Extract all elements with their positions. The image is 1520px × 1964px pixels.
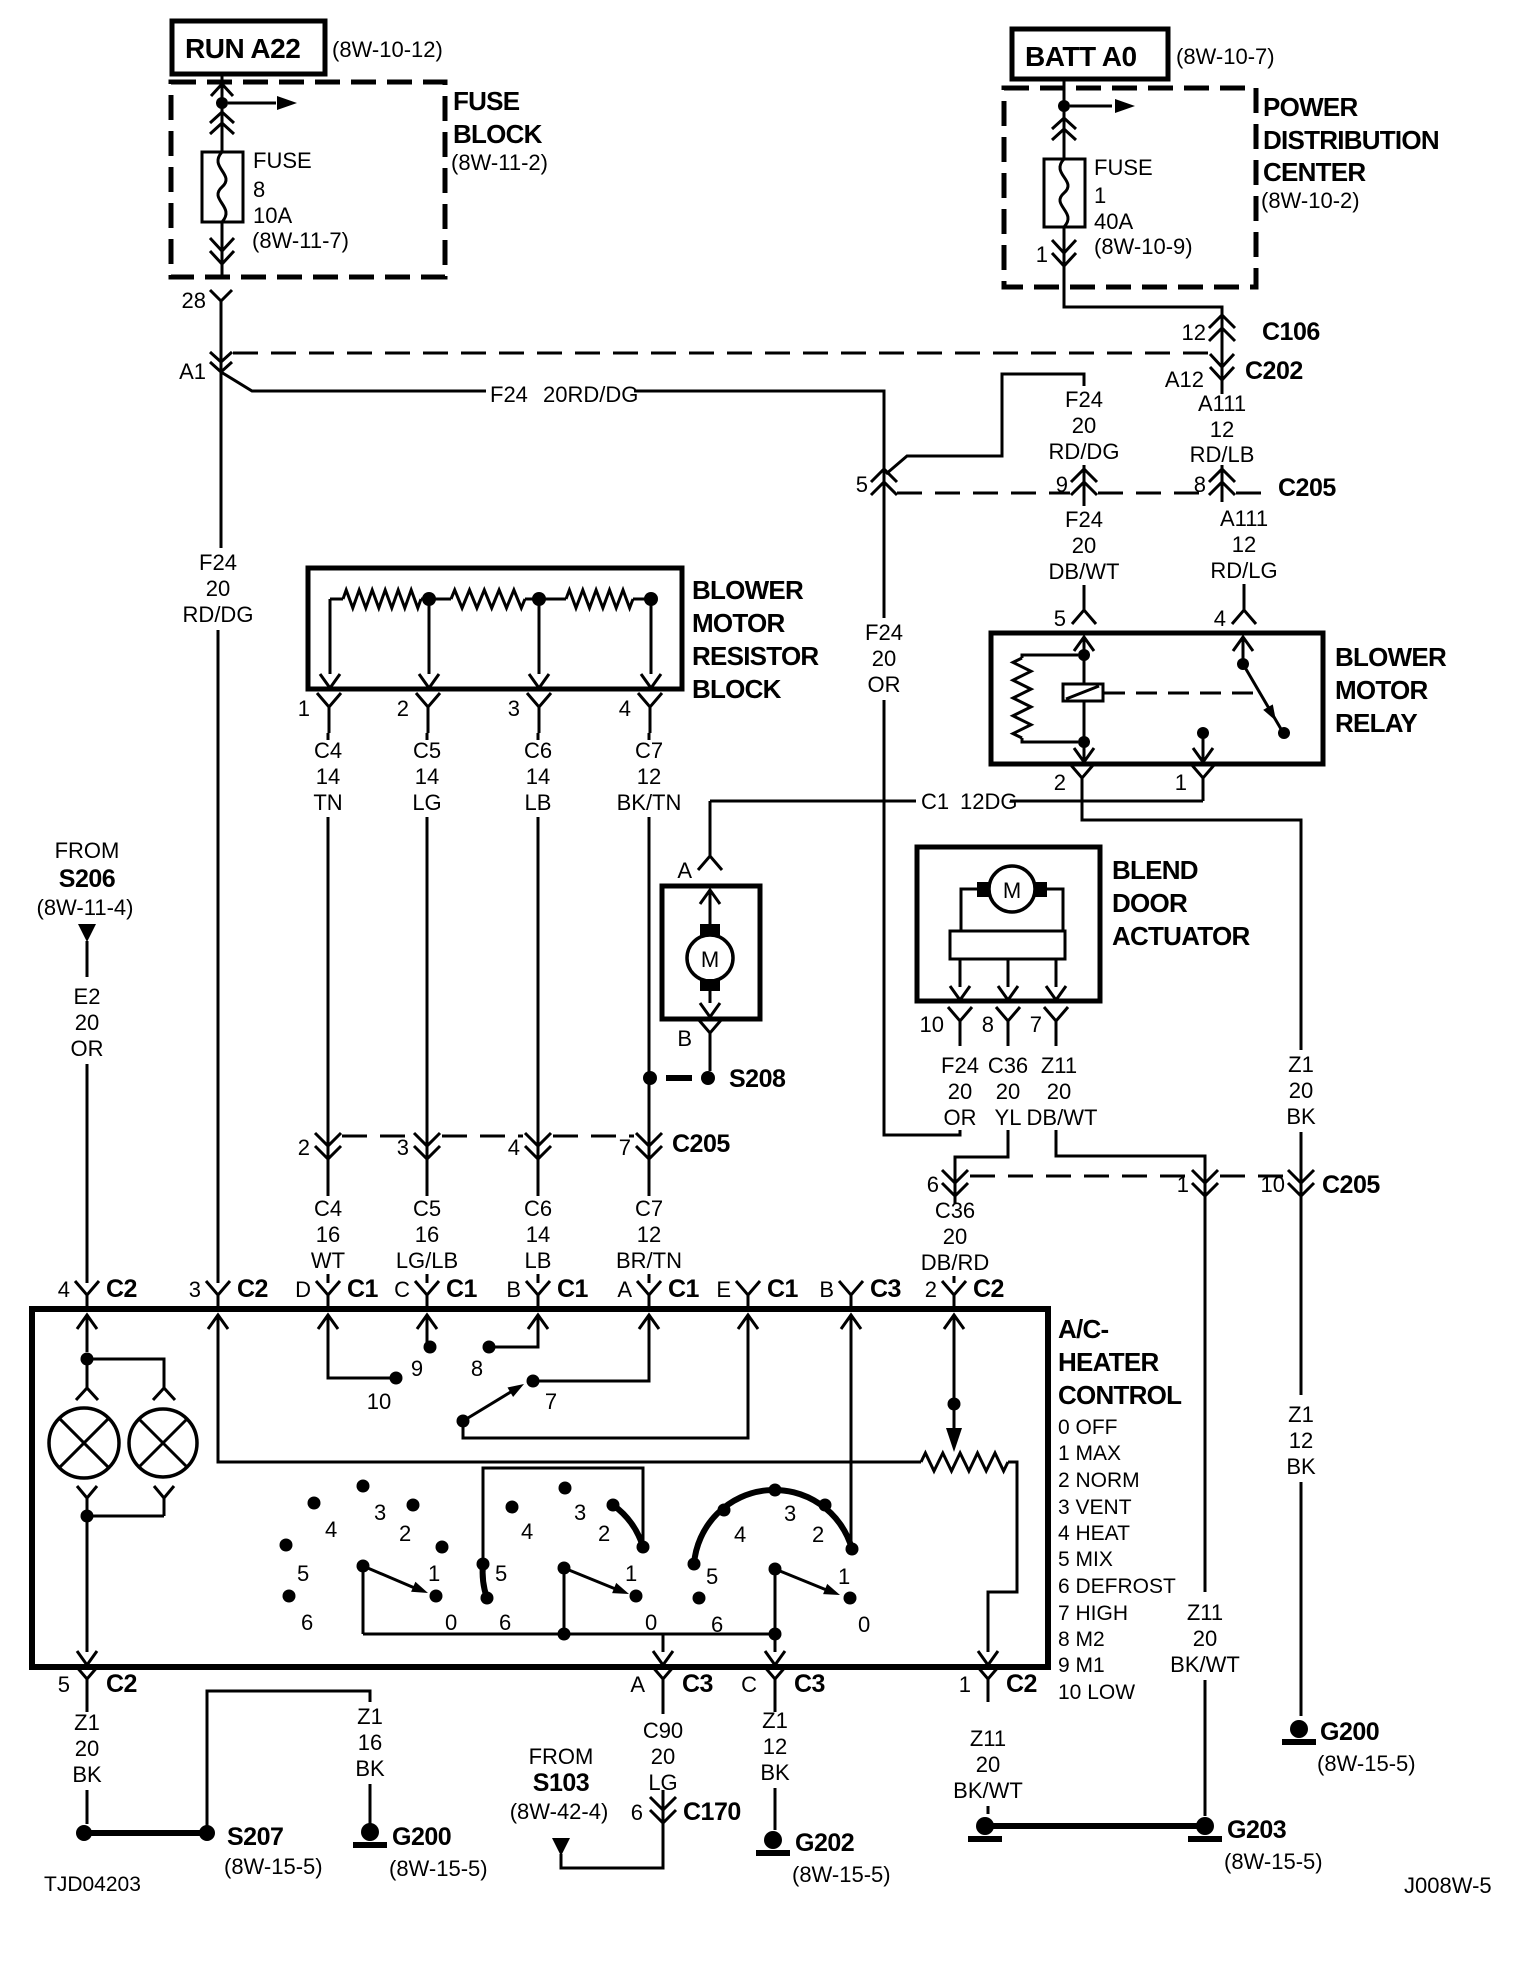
svg-text:0: 0 <box>858 1612 870 1637</box>
svg-text:C7: C7 <box>635 738 663 763</box>
svg-text:(8W-15-5): (8W-15-5) <box>389 1856 488 1881</box>
wire pot to 1 C2 <box>988 1462 1017 1652</box>
switch C contacts <box>688 1558 701 1571</box>
resistor element 2 <box>434 598 451 601</box>
contact 10 dot <box>390 1372 403 1385</box>
svg-text:C1: C1 <box>347 1275 379 1303</box>
svg-text:10A: 10A <box>253 203 292 228</box>
PDC bus dot with arrow <box>1058 100 1070 112</box>
svg-text:RUN A22: RUN A22 <box>185 33 300 64</box>
connector resistor pin 1 <box>317 693 341 733</box>
svg-text:0: 0 <box>645 1610 657 1635</box>
blower motor resistor block box <box>308 568 682 689</box>
svg-text:2: 2 <box>298 1135 310 1160</box>
wire contact 7 to A C1 <box>539 1315 649 1381</box>
connector control C C1 <box>415 1281 439 1309</box>
svg-text:RELAY: RELAY <box>1335 708 1417 738</box>
wire C6 14 LB resistor to C205 pin 4 <box>537 733 540 740</box>
svg-text:LB: LB <box>525 790 552 815</box>
svg-text:B: B <box>506 1277 521 1302</box>
svg-text:OR: OR <box>868 672 901 697</box>
svg-text:28: 28 <box>182 288 206 313</box>
svg-text:J008W-5: J008W-5 <box>1404 1873 1492 1898</box>
switch B bridge arc 5-6 <box>483 1564 487 1598</box>
svg-text:C6: C6 <box>524 738 552 763</box>
svg-text:0: 0 <box>445 1610 457 1635</box>
control entry arrow D C1 <box>318 1315 338 1329</box>
svg-text:F24: F24 <box>490 382 528 407</box>
svg-text:DOOR: DOOR <box>1112 888 1188 918</box>
switch B contact link 5 to 1 <box>483 1468 643 1558</box>
svg-text:A: A <box>630 1672 645 1697</box>
relay pin 2 exit arrow <box>1083 742 1086 763</box>
svg-text:20: 20 <box>1289 1078 1313 1103</box>
svg-text:M: M <box>701 947 719 972</box>
svg-text:16: 16 <box>358 1730 382 1755</box>
svg-text:14: 14 <box>526 764 550 789</box>
svg-text:1: 1 <box>1094 183 1106 208</box>
svg-text:3: 3 <box>574 1500 586 1525</box>
wire C170 to S103 <box>561 1823 663 1868</box>
connector C205 pin 10 <box>1288 1170 1314 1196</box>
resistor junction dot 4 <box>644 592 658 606</box>
fuse block internal bus dot with arrow <box>216 97 228 109</box>
svg-text:FUSE: FUSE <box>1094 155 1153 180</box>
svg-text:4: 4 <box>58 1277 70 1302</box>
svg-text:C2: C2 <box>106 1670 137 1698</box>
wire switch C wiper to bus <box>774 1575 777 1634</box>
wire illumination feed from 4 C2 <box>86 1315 89 1352</box>
svg-text:1: 1 <box>428 1561 440 1586</box>
svg-text:C90: C90 <box>643 1718 683 1743</box>
svg-text:20: 20 <box>1072 413 1096 438</box>
connector relay pin 1 <box>1191 764 1215 801</box>
svg-text:C205: C205 <box>672 1130 730 1158</box>
svg-text:S207: S207 <box>227 1823 283 1851</box>
ac heater control box <box>32 1309 1048 1667</box>
resistor element 1 <box>330 598 343 601</box>
svg-text:2: 2 <box>925 1277 937 1302</box>
control entry arrow E C1 <box>738 1315 758 1329</box>
svg-text:C5: C5 <box>413 1196 441 1221</box>
connector actuator pin 8 <box>996 1007 1020 1046</box>
svg-text:Z1: Z1 <box>1288 1402 1314 1427</box>
svg-text:9: 9 <box>411 1356 423 1381</box>
connector control A C1 <box>637 1281 661 1309</box>
ground G203 <box>1196 1817 1214 1835</box>
connector control C C3 <box>763 1665 787 1702</box>
svg-text:3: 3 <box>784 1501 796 1526</box>
svg-text:C: C <box>394 1277 410 1302</box>
connector control 1 C2 <box>976 1665 1000 1702</box>
wire contact 8 to B C1 <box>495 1315 538 1347</box>
wire PDC to C106 <box>1064 287 1222 394</box>
svg-text:16: 16 <box>415 1222 439 1247</box>
svg-text:A/C-: A/C- <box>1058 1314 1109 1344</box>
svg-text:(8W-10-2): (8W-10-2) <box>1261 188 1360 213</box>
node FROM S103 source <box>552 1838 570 1856</box>
svg-text:2: 2 <box>1054 770 1066 795</box>
svg-text:3: 3 <box>397 1135 409 1160</box>
svg-text:1: 1 <box>1177 1172 1189 1197</box>
wire fuse 8 output <box>221 222 224 277</box>
contact 9 dot <box>424 1341 437 1354</box>
connector control 5 C2 <box>75 1665 99 1702</box>
svg-text:C36: C36 <box>935 1198 975 1223</box>
svg-text:MOTOR: MOTOR <box>1335 675 1429 705</box>
svg-text:6: 6 <box>499 1610 511 1635</box>
svg-text:4: 4 <box>325 1517 337 1542</box>
svg-text:5: 5 <box>58 1672 70 1697</box>
switch B bridge arc 2-1 <box>613 1505 643 1547</box>
svg-text:DB/WT: DB/WT <box>1049 559 1120 584</box>
power distribution center dashed box <box>1004 88 1256 287</box>
svg-text:1: 1 <box>625 1561 637 1586</box>
svg-text:A1: A1 <box>179 359 206 384</box>
svg-text:6: 6 <box>927 1172 939 1197</box>
svg-text:G200: G200 <box>1320 1718 1379 1746</box>
blend door actuator M motor <box>989 866 1035 912</box>
relay actuation dashed link <box>1104 692 1256 695</box>
node RUN A22 feed box <box>172 21 325 74</box>
svg-text:Z1: Z1 <box>762 1708 788 1733</box>
svg-text:2: 2 <box>812 1522 824 1547</box>
svg-text:HEATER: HEATER <box>1058 1347 1159 1377</box>
svg-text:RD/DG: RD/DG <box>1049 439 1120 464</box>
connector C205 pin 1 <box>1192 1170 1218 1196</box>
svg-text:BLOCK: BLOCK <box>692 674 782 704</box>
svg-text:3: 3 <box>374 1500 386 1525</box>
wire fuse 1 output <box>1063 227 1066 287</box>
svg-text:7: 7 <box>1030 1012 1042 1037</box>
svg-text:7: 7 <box>545 1389 557 1414</box>
relay switch NO contact dot <box>1278 727 1290 739</box>
connector control 4 C2 <box>75 1281 99 1309</box>
svg-text:BK/WT: BK/WT <box>1170 1652 1240 1677</box>
svg-text:C2: C2 <box>1006 1670 1037 1698</box>
svg-text:2: 2 <box>598 1521 610 1546</box>
svg-text:F24: F24 <box>865 620 903 645</box>
wire Z1 12 BK to G202 <box>774 1702 777 1712</box>
svg-text:E2: E2 <box>74 984 101 1009</box>
svg-text:4: 4 <box>734 1522 746 1547</box>
svg-text:14: 14 <box>415 764 439 789</box>
connector C205 right dashed line <box>970 1175 1190 1178</box>
svg-text:4: 4 <box>619 696 631 721</box>
svg-text:1 MAX: 1 MAX <box>1058 1442 1121 1465</box>
svg-text:20: 20 <box>943 1224 967 1249</box>
contact 7 dot <box>527 1375 540 1388</box>
ground G202 <box>764 1831 782 1849</box>
svg-text:M: M <box>1003 878 1021 903</box>
svg-text:C36: C36 <box>988 1053 1028 1078</box>
svg-text:2 NORM: 2 NORM <box>1058 1469 1140 1492</box>
wire wiper to E C1 <box>463 1315 748 1438</box>
connector control D C1 <box>316 1281 340 1309</box>
svg-text:BK/TN: BK/TN <box>617 790 682 815</box>
connector resistor pin 4 <box>638 693 662 733</box>
bus junction dot switch C <box>769 1628 782 1641</box>
svg-text:12: 12 <box>1232 532 1256 557</box>
svg-text:BATT A0: BATT A0 <box>1025 41 1137 72</box>
svg-text:20: 20 <box>1072 533 1096 558</box>
svg-text:BLOWER: BLOWER <box>1335 642 1447 672</box>
svg-text:FROM: FROM <box>529 1744 594 1769</box>
svg-text:6: 6 <box>301 1610 313 1635</box>
blower motor pin A entry arrow <box>700 890 720 904</box>
relay pin 1 contact dot <box>1197 727 1209 739</box>
lamp 1 illumination bulb <box>49 1408 119 1478</box>
svg-text:(8W-10-9): (8W-10-9) <box>1094 234 1193 259</box>
connector blower motor pin B <box>698 1019 722 1057</box>
wire RUN A22 to fuse block <box>221 74 224 100</box>
svg-text:DB/WT: DB/WT <box>1027 1105 1098 1130</box>
actuator pin 8 exit arrow <box>1007 959 1010 987</box>
svg-text:C6: C6 <box>524 1196 552 1221</box>
svg-text:14: 14 <box>316 764 340 789</box>
svg-text:12: 12 <box>637 1222 661 1247</box>
svg-text:CONTROL: CONTROL <box>1058 1380 1182 1410</box>
connector resistor pin 2 <box>416 693 440 733</box>
wire relay pin 2 to Z1 <box>1082 801 1301 1050</box>
svg-text:20: 20 <box>75 1736 99 1761</box>
wire switch B wiper to bus <box>563 1568 566 1634</box>
wire F24 20 OR from C205 pin 5 to actuator pin 10 <box>883 497 886 618</box>
connector actuator pin 10 <box>948 1007 972 1046</box>
svg-text:A: A <box>617 1277 632 1302</box>
svg-text:1: 1 <box>1036 242 1048 267</box>
wire C7 12 BK/TN resistor to C205 pin 7 <box>648 733 651 740</box>
connector C205 pin 2 <box>315 1133 341 1159</box>
svg-text:Z11: Z11 <box>1187 1600 1223 1625</box>
switch A contacts <box>357 1480 370 1493</box>
svg-text:BLEND: BLEND <box>1112 855 1198 885</box>
svg-text:20: 20 <box>996 1079 1020 1104</box>
connector C205 dashed line top <box>897 492 1070 495</box>
svg-text:C205: C205 <box>1278 474 1336 502</box>
svg-text:F24: F24 <box>1065 387 1103 412</box>
relay blower motor relay box <box>991 633 1323 764</box>
fuse F8 10A <box>202 152 243 222</box>
wire C1 12DG to blower motor pin A <box>709 801 712 843</box>
svg-text:(8W-15-5): (8W-15-5) <box>792 1862 891 1887</box>
svg-text:20: 20 <box>651 1744 675 1769</box>
relay coil bottom junction dot <box>1083 701 1086 742</box>
svg-text:C1: C1 <box>767 1275 799 1303</box>
control entry arrow B C1 <box>528 1315 548 1329</box>
blend door actuator position rectangle <box>950 931 1065 959</box>
resistor arm pin 2 <box>428 605 431 674</box>
svg-text:BK: BK <box>355 1756 385 1781</box>
svg-text:8: 8 <box>982 1012 994 1037</box>
connector control 3 C2 <box>206 1281 230 1309</box>
svg-text:C3: C3 <box>870 1275 901 1303</box>
wire Z11 20 BK/WT from C205 pin 1 <box>1204 1204 1207 1592</box>
svg-text:BK: BK <box>760 1760 790 1785</box>
wire 2 C2 pot wiper <box>953 1315 956 1400</box>
svg-text:9: 9 <box>1056 472 1068 497</box>
wire BATT A0 to PDC <box>1063 79 1066 159</box>
connector C205 mid dashed line <box>342 1135 412 1138</box>
splice S208 <box>701 1071 715 1085</box>
svg-text:Z1: Z1 <box>357 1704 383 1729</box>
ground G200 right <box>1290 1720 1308 1738</box>
connector C205 pin 4 <box>525 1133 551 1159</box>
svg-text:1: 1 <box>959 1672 971 1697</box>
svg-text:10: 10 <box>920 1012 944 1037</box>
svg-text:8: 8 <box>253 177 265 202</box>
svg-text:4: 4 <box>1214 606 1226 631</box>
svg-text:1: 1 <box>1175 770 1187 795</box>
svg-text:B: B <box>677 1026 692 1051</box>
wire Z11 20 DB/WT to C205 pin 1 <box>1056 1130 1205 1204</box>
connector control E C1 <box>736 1281 760 1309</box>
svg-text:S208: S208 <box>729 1065 786 1093</box>
svg-text:(8W-10-7): (8W-10-7) <box>1176 44 1275 69</box>
svg-text:20: 20 <box>206 576 230 601</box>
svg-text:4 HEAT: 4 HEAT <box>1058 1522 1130 1545</box>
resistor arm pin 4 <box>650 605 653 674</box>
svg-text:OR: OR <box>944 1105 977 1130</box>
svg-text:14: 14 <box>526 1222 550 1247</box>
connector control 2 C2 <box>942 1281 966 1309</box>
control entry arrow A C1 <box>639 1315 659 1329</box>
svg-text:A111: A111 <box>1198 391 1246 416</box>
svg-text:C170: C170 <box>683 1798 741 1826</box>
wire S207 to G200 Z1 16 BK <box>207 1691 370 1833</box>
svg-text:16: 16 <box>316 1222 340 1247</box>
svg-text:5: 5 <box>1054 606 1066 631</box>
relay coil <box>1063 684 1103 701</box>
svg-text:0 OFF: 0 OFF <box>1058 1416 1118 1439</box>
connector relay pin 2 <box>1070 764 1094 801</box>
svg-text:Z1: Z1 <box>1288 1052 1314 1077</box>
svg-text:BLOWER: BLOWER <box>692 575 804 605</box>
svg-text:(8W-11-7): (8W-11-7) <box>252 228 349 253</box>
blower motor pin B exit arrow <box>709 991 712 1003</box>
svg-text:C202: C202 <box>1245 357 1303 385</box>
connector C205 pin 5 <box>883 468 886 505</box>
svg-text:10: 10 <box>1261 1172 1285 1197</box>
fuse F1 40A <box>1044 159 1085 227</box>
svg-text:LG/LB: LG/LB <box>396 1248 458 1273</box>
relay switch arm <box>1243 664 1281 729</box>
switch C bridge arc 5-4-3-2-1 <box>694 1490 852 1564</box>
svg-text:CENTER: CENTER <box>1263 157 1366 187</box>
actuator pin 7 exit arrow <box>1055 959 1058 987</box>
connector chevrons into fuse 8 <box>221 106 224 152</box>
svg-text:8 M2: 8 M2 <box>1058 1628 1105 1651</box>
svg-text:12: 12 <box>1289 1428 1313 1453</box>
svg-text:C1: C1 <box>446 1275 478 1303</box>
svg-text:F24: F24 <box>941 1053 979 1078</box>
connector C202 body side <box>1210 354 1234 380</box>
lamp terminal arrows <box>76 1388 98 1400</box>
svg-text:F24: F24 <box>199 550 237 575</box>
svg-text:RD/LB: RD/LB <box>1190 442 1255 467</box>
wire F24 20RD/DG branch to C205 <box>221 372 486 391</box>
svg-text:C4: C4 <box>314 738 342 763</box>
svg-text:C4: C4 <box>314 1196 342 1221</box>
svg-text:RD/LG: RD/LG <box>1210 558 1277 583</box>
svg-text:C7: C7 <box>635 1196 663 1221</box>
resistor junction dot 3 <box>532 592 546 606</box>
svg-text:YL: YL <box>995 1105 1022 1130</box>
relay pin 4 entry arrow <box>1233 637 1253 651</box>
svg-text:12: 12 <box>1210 417 1234 442</box>
svg-text:(8W-11-2): (8W-11-2) <box>451 150 548 175</box>
relay coil top junction dot <box>1078 649 1090 661</box>
svg-text:E: E <box>716 1277 731 1302</box>
svg-text:C1: C1 <box>557 1275 589 1303</box>
svg-text:BK: BK <box>72 1762 102 1787</box>
svg-text:5: 5 <box>297 1561 309 1586</box>
lamp bottom terminals <box>77 1486 97 1516</box>
svg-text:12: 12 <box>637 764 661 789</box>
svg-text:TN: TN <box>313 790 342 815</box>
wire C1 12DG relay output <box>710 800 916 803</box>
svg-text:C106: C106 <box>1262 318 1320 346</box>
resistor junction dot 2 <box>422 592 436 606</box>
wire F24 branch to C205 pin 9 <box>886 374 1084 474</box>
svg-text:20RD/DG: 20RD/DG <box>543 382 638 407</box>
svg-text:20: 20 <box>75 1010 99 1035</box>
connector actuator pin 7 <box>1044 1007 1068 1046</box>
svg-text:20: 20 <box>976 1752 1000 1777</box>
svg-text:WT: WT <box>311 1248 345 1273</box>
svg-text:6 DEFROST: 6 DEFROST <box>1058 1575 1176 1598</box>
svg-text:2: 2 <box>397 696 409 721</box>
svg-text:3: 3 <box>508 696 520 721</box>
svg-text:TJD04203: TJD04203 <box>44 1873 141 1896</box>
wire C4 14 TN resistor to C205 pin 2 <box>327 733 330 740</box>
svg-text:D: D <box>295 1277 311 1302</box>
svg-text:4: 4 <box>521 1519 533 1544</box>
svg-text:DB/RD: DB/RD <box>921 1250 989 1275</box>
wire actuator motor leads <box>961 889 977 931</box>
svg-text:FROM: FROM <box>55 838 120 863</box>
svg-text:7: 7 <box>619 1135 631 1160</box>
svg-text:12: 12 <box>1182 320 1206 345</box>
node BATT A0 feed box <box>1012 29 1168 79</box>
connector C205 pin 7 <box>636 1133 662 1159</box>
lamp 2 illumination bulb <box>129 1409 197 1477</box>
svg-text:(8W-15-5): (8W-15-5) <box>1224 1849 1323 1874</box>
svg-text:5: 5 <box>706 1564 718 1589</box>
svg-text:MOTOR: MOTOR <box>692 608 786 638</box>
wire bus to A C3 <box>662 1634 665 1652</box>
svg-text:B: B <box>819 1277 834 1302</box>
svg-text:RESISTOR: RESISTOR <box>692 641 819 671</box>
wire C36 20 YL to C205 pin 6 <box>955 1130 1008 1204</box>
svg-text:BR/TN: BR/TN <box>616 1248 682 1273</box>
blower motor box <box>662 886 760 1019</box>
blend door actuator box <box>917 847 1100 1001</box>
svg-text:C3: C3 <box>794 1670 825 1698</box>
svg-text:G202: G202 <box>795 1829 854 1857</box>
svg-text:POWER: POWER <box>1263 92 1358 122</box>
svg-text:LG: LG <box>412 790 441 815</box>
svg-text:A12: A12 <box>1165 367 1204 392</box>
wire C5 14 LG resistor to C205 pin 3 <box>426 733 429 740</box>
svg-text:C3: C3 <box>682 1670 713 1698</box>
svg-text:G203: G203 <box>1227 1816 1286 1844</box>
svg-text:S206: S206 <box>59 865 115 893</box>
wire C C1 to contact 9 <box>426 1315 429 1347</box>
switch B wiper <box>558 1562 571 1575</box>
wire G203 bond <box>985 1823 1205 1829</box>
svg-text:1: 1 <box>838 1564 850 1589</box>
